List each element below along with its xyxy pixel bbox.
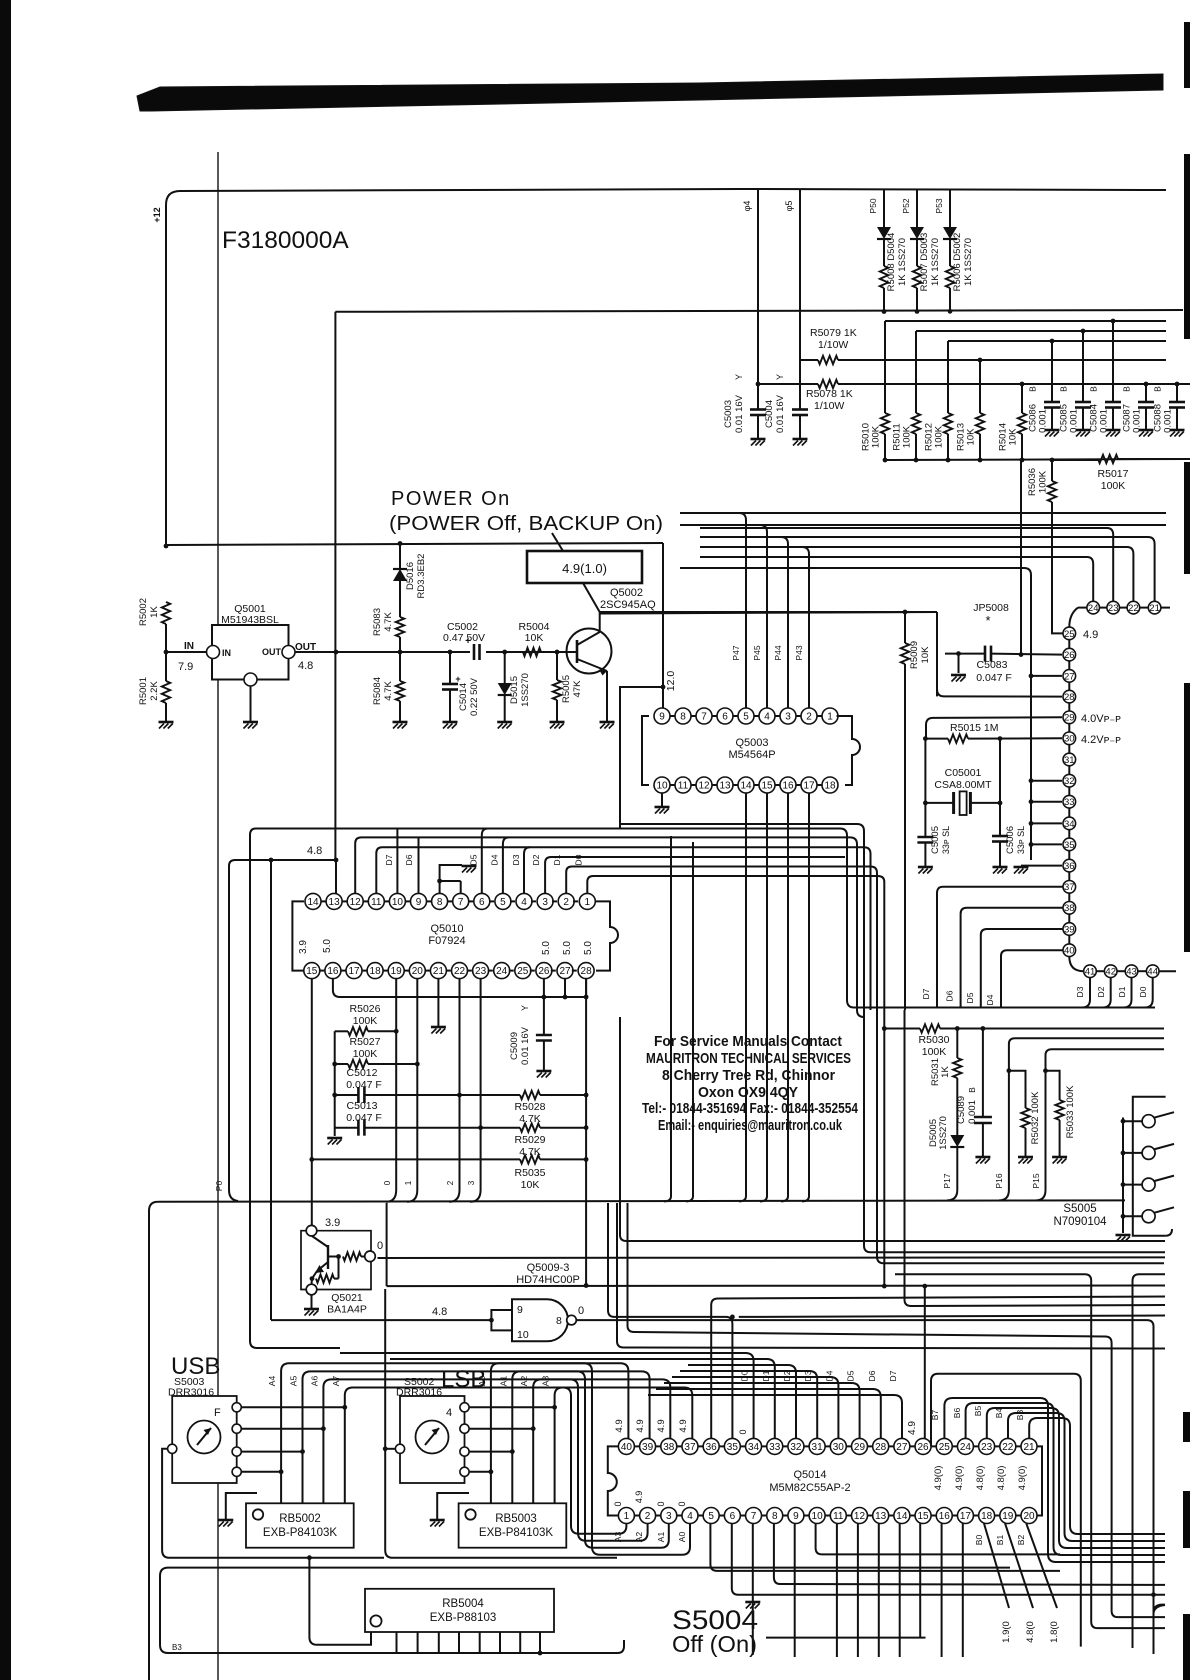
wire pin15 vertical down xyxy=(311,979,313,1231)
svg-text:D5: D5 xyxy=(965,992,975,1003)
svg-text:5.0: 5.0 xyxy=(562,941,573,955)
wire bus y=537 left end corner down xyxy=(700,537,788,583)
junction RB5004 pin8 bus xyxy=(538,1651,543,1656)
connector pin 23 xyxy=(1107,601,1120,614)
svg-text:A0: A0 xyxy=(677,1532,687,1543)
IC Q5010 pin 3 xyxy=(537,893,553,909)
IC Q5003 pin 7 xyxy=(696,708,712,724)
connector pin 40 xyxy=(1063,944,1076,957)
svg-text:D4: D4 xyxy=(490,854,500,865)
IC Q5014 pin 19 xyxy=(1000,1508,1016,1524)
svg-text:R5001: R5001 xyxy=(138,677,149,705)
IC Q5014 pin 27 xyxy=(894,1438,910,1454)
wire pin13 drop xyxy=(335,860,337,894)
ground below C5003 xyxy=(751,438,766,441)
wire Q5002 collector to 12.0 node xyxy=(600,612,937,614)
svg-text:100K: 100K xyxy=(902,425,913,448)
wire Q5003 pin14 down xyxy=(745,793,747,1196)
svg-text:33: 33 xyxy=(769,1442,781,1453)
svg-text:0.47 50V: 0.47 50V xyxy=(443,632,485,644)
svg-text:D3: D3 xyxy=(1075,986,1085,997)
junction R5030/R5031 xyxy=(955,1026,960,1031)
svg-text:23: 23 xyxy=(475,966,487,977)
wire Q5010 pin1 riser to bus y=876 xyxy=(587,876,884,1286)
wire 12.0 node to Q5003 pin 9 xyxy=(662,687,664,710)
svg-text:B3: B3 xyxy=(172,1643,182,1652)
ground at RB5003 xyxy=(430,1519,445,1522)
svg-text:7: 7 xyxy=(458,897,464,908)
NAND output bubble xyxy=(567,1315,577,1325)
wire Q5010 pin5 riser to bus xyxy=(503,837,509,893)
svg-text:27: 27 xyxy=(1064,671,1075,682)
switch S5002 dial xyxy=(416,1421,449,1454)
resistor R5036 100K xyxy=(1051,460,1053,481)
svg-text:For Service Manuals Contact: For Service Manuals Contact xyxy=(654,1033,842,1050)
diode D5016 RD3.3EB2 zener xyxy=(399,544,401,570)
IC Q5010 pin 11 xyxy=(368,893,384,909)
svg-text:4: 4 xyxy=(687,1511,693,1522)
svg-text:44: 44 xyxy=(1147,967,1158,978)
IC Q5010 pin 6 xyxy=(474,893,490,909)
wire LSB common west xyxy=(385,1448,395,1450)
wire phi4 vertical xyxy=(757,190,759,409)
IC Q5014 pin 7 xyxy=(746,1508,762,1524)
svg-text:100K: 100K xyxy=(353,1048,378,1060)
wire pin22 vertical xyxy=(459,979,461,1190)
svg-text:1: 1 xyxy=(404,1180,413,1185)
svg-text:4: 4 xyxy=(764,712,770,723)
svg-text:33ᴘ SL: 33ᴘ SL xyxy=(941,826,951,854)
wire A0 from LSB to Q5014 xyxy=(491,1363,690,1555)
svg-text:3: 3 xyxy=(467,1180,476,1185)
junction R5027 left xyxy=(332,1062,337,1067)
junction C5083 left xyxy=(956,651,961,656)
wire A5 from USB to Q5014 xyxy=(303,1371,650,1503)
svg-text:R5079 1K: R5079 1K xyxy=(810,327,857,339)
wire P16 riser and hook xyxy=(999,1038,1164,1200)
svg-text:C5083: C5083 xyxy=(977,659,1008,671)
IC Q5014 pin 39 xyxy=(640,1438,656,1454)
svg-text:29: 29 xyxy=(1064,713,1075,724)
svg-text:R5083: R5083 xyxy=(372,608,383,636)
svg-text:1.9(0: 1.9(0 xyxy=(1001,1621,1012,1643)
IC Q5014 pin 2 xyxy=(640,1508,656,1524)
IC Q5014 pin 9 xyxy=(788,1508,804,1524)
svg-text:16: 16 xyxy=(782,781,794,792)
wire R5084 to ground xyxy=(399,701,401,722)
IC Q5003 pin 8 xyxy=(675,708,691,724)
svg-text:Y: Y xyxy=(734,374,744,380)
svg-text:1/10W: 1/10W xyxy=(814,400,844,412)
svg-text:17: 17 xyxy=(803,781,815,792)
svg-text:0: 0 xyxy=(656,1501,666,1506)
svg-text:+12: +12 xyxy=(152,207,162,222)
svg-text:35: 35 xyxy=(727,1442,739,1453)
svg-text:4.8(0): 4.8(0) xyxy=(996,1466,1007,1491)
wire P15 riser and hook xyxy=(1036,1049,1164,1200)
svg-text:4.2Vᴘ₋ᴘ: 4.2Vᴘ₋ᴘ xyxy=(1081,734,1121,746)
svg-text:27: 27 xyxy=(559,966,571,977)
svg-text:13: 13 xyxy=(719,781,731,792)
switch S5005 common bracket xyxy=(1122,1118,1124,1234)
svg-text:3: 3 xyxy=(542,897,548,908)
svg-text:Off (On): Off (On) xyxy=(672,1631,757,1657)
wire Q5021 bottom to ground xyxy=(311,1295,313,1308)
wire USB contact1 to A7 xyxy=(241,1406,344,1408)
wire pin35 feed xyxy=(608,1203,1165,1438)
junction OUT rail at x=336 xyxy=(334,650,339,655)
svg-text:0: 0 xyxy=(578,1305,584,1317)
svg-text:18: 18 xyxy=(370,966,382,977)
svg-text:10K: 10K xyxy=(521,1179,540,1191)
svg-text:5.0: 5.0 xyxy=(541,941,552,955)
ground below C5083 wire xyxy=(951,674,966,677)
junction D5004 column on 311.8 xyxy=(882,309,887,314)
ground at Q5010 pins 7-8 xyxy=(462,865,477,868)
svg-text:3.9: 3.9 xyxy=(298,940,309,954)
switch S5002 common contact xyxy=(395,1444,404,1453)
svg-text:P17: P17 xyxy=(942,1173,952,1188)
svg-text:C5009: C5009 xyxy=(509,1032,520,1060)
wire pin25 riser corner xyxy=(1069,608,1078,627)
svg-text:10K: 10K xyxy=(525,632,544,644)
wire D5 to Q5014 xyxy=(664,1383,860,1438)
svg-text:B: B xyxy=(1089,386,1099,392)
svg-text:40: 40 xyxy=(1064,946,1075,957)
wire LSB contact3 to A1 xyxy=(469,1451,512,1453)
wire vertical x=271 down to NAND supply xyxy=(270,860,272,1320)
ground below C5009 xyxy=(536,1070,551,1073)
IC Q5010 pin 20 xyxy=(409,963,425,979)
wire USB contact3 to A5 xyxy=(241,1451,302,1453)
svg-text:9: 9 xyxy=(416,897,422,908)
IC Q5014 pin 15 xyxy=(915,1508,931,1524)
connector pin 30 xyxy=(1063,732,1076,745)
wire bus y=525 left end corner down xyxy=(680,525,767,573)
Q5021 output pin circle xyxy=(365,1251,376,1262)
svg-text:C5089: C5089 xyxy=(956,1096,967,1124)
IC Q5010 pin 16 xyxy=(325,963,341,979)
svg-text:R5009: R5009 xyxy=(909,641,920,669)
resistor R5001 xyxy=(162,681,170,703)
wire LSB contact4 to A0 xyxy=(469,1471,491,1473)
wire pin7 drop to S5004 ground xyxy=(752,1524,754,1656)
resistor R5035 10K xyxy=(520,1155,540,1163)
wire R5035 rail y=1159 xyxy=(312,1158,520,1160)
resonator C05001 element xyxy=(925,802,953,804)
ground below R5033 xyxy=(1052,1156,1067,1159)
junction LSB common x=385 xyxy=(383,1446,388,1451)
wire vertical x=663 from top wire to 12.0 junction xyxy=(662,543,664,687)
wire Q5010 pin21 to ground xyxy=(437,979,439,1026)
resistor R5033 100K xyxy=(1046,1071,1060,1100)
svg-text:100K: 100K xyxy=(922,1046,947,1058)
wire bus y=1274.3 east segment xyxy=(1133,1274,1166,1648)
IC Q5003 pin 2 xyxy=(801,708,817,724)
svg-text:33: 33 xyxy=(1064,797,1075,808)
svg-text:4.9: 4.9 xyxy=(907,1421,918,1435)
resistor R5007 1K xyxy=(913,266,921,288)
svg-text:C5004: C5004 xyxy=(764,400,775,428)
svg-text:N7090104: N7090104 xyxy=(1053,1216,1107,1228)
svg-text:R5017: R5017 xyxy=(1098,468,1129,480)
wire D1 to Q5014 xyxy=(390,1359,775,1438)
wire pin10 drop xyxy=(816,1524,1060,1555)
wire A4 from USB to Q5014 xyxy=(281,1363,628,1503)
IC Q5014 pin 18 xyxy=(979,1508,995,1524)
IC Q5014 pin 40 xyxy=(618,1438,634,1454)
svg-text:P50: P50 xyxy=(868,198,878,213)
svg-text:36: 36 xyxy=(706,1442,718,1453)
wire 12.0 node stub left and down xyxy=(620,687,663,824)
wire RB5002 ground stub xyxy=(226,1493,257,1519)
svg-text:C5006: C5006 xyxy=(1005,826,1016,854)
svg-text:18: 18 xyxy=(981,1511,993,1522)
IC RB5003 EXB-P84103K body xyxy=(459,1503,567,1547)
IC Q5010 pin 8 xyxy=(432,893,448,909)
svg-text:D7: D7 xyxy=(384,854,394,865)
IC Q5014 pin 8 xyxy=(767,1508,783,1524)
diagonal from pin18 xyxy=(984,1524,1009,1609)
wire LSB contact1 to A3 xyxy=(469,1406,554,1408)
svg-text:R5030: R5030 xyxy=(919,1034,950,1046)
wire horizontal y=544 from +12 rail to Q5002 collector drop xyxy=(166,543,663,545)
junction rail y=460 xyxy=(1050,458,1055,463)
svg-text:R5032 100K: R5032 100K xyxy=(1030,1091,1041,1144)
connector pin 38 xyxy=(1063,902,1076,915)
svg-text:F: F xyxy=(214,1407,221,1419)
svg-text:5: 5 xyxy=(743,712,749,723)
resistor R5015 1M xyxy=(925,738,948,740)
wire pin13 drop xyxy=(878,1524,880,1658)
svg-text:4.9(1.0): 4.9(1.0) xyxy=(562,561,607,576)
junction rail y=460 xyxy=(883,458,888,463)
IC Q5003 pin 1 xyxy=(822,708,838,724)
svg-text:R5015 1M: R5015 1M xyxy=(950,722,998,734)
wire pin34 west xyxy=(1031,822,1062,824)
svg-text:D6: D6 xyxy=(404,854,414,865)
svg-text:28: 28 xyxy=(581,966,593,977)
switch S5003 dial xyxy=(188,1421,221,1454)
capacitor C5088 0.001 B xyxy=(1176,385,1178,402)
wire R5083 to rail xyxy=(399,637,401,652)
right edge black mark 7 xyxy=(1183,1614,1190,1680)
wire vertical x=386.6 from bus to NAND area xyxy=(386,1203,388,1286)
capacitor C5003 0.01 16V xyxy=(750,408,766,411)
svg-text:4.9: 4.9 xyxy=(634,1491,644,1504)
svg-text:21: 21 xyxy=(1149,603,1160,614)
wire bus y=1263.2 from bundle x=877 xyxy=(877,1017,1164,1263)
svg-text:24: 24 xyxy=(496,966,508,977)
wire OUT rail y=652 xyxy=(295,651,577,653)
wire box line 4 xyxy=(376,847,870,1010)
IC Q5014 pin 14 xyxy=(894,1508,910,1524)
svg-text:19: 19 xyxy=(1002,1511,1014,1522)
wire bus y=525 xyxy=(680,524,1166,526)
wire arc branch exit y=1604.6 xyxy=(1154,1605,1166,1613)
svg-text:17: 17 xyxy=(960,1511,972,1522)
IC Q5014 body bottom edge xyxy=(620,1515,1036,1517)
wire A1 from LSB to Q5014 xyxy=(512,1371,669,1547)
svg-text:Q5003: Q5003 xyxy=(735,737,768,749)
IC Q5010 pin 12 xyxy=(347,893,363,909)
wire bundle hook x=767 xyxy=(760,1196,767,1201)
IC Q5014 pin 11 xyxy=(830,1508,846,1524)
wire pin38 west and hook xyxy=(961,908,1063,1008)
Q5021 bottom pin circle xyxy=(306,1284,317,1295)
svg-text:35: 35 xyxy=(1064,840,1075,851)
ground below C5087 xyxy=(1139,429,1154,432)
svg-text:32: 32 xyxy=(1064,776,1075,787)
junction bus F at C5087 xyxy=(1144,382,1149,387)
svg-text:0.047 F: 0.047 F xyxy=(346,1112,382,1124)
svg-text:27: 27 xyxy=(896,1442,908,1453)
svg-text:2: 2 xyxy=(806,712,812,723)
junction resonator right xyxy=(998,801,1003,806)
svg-text:6: 6 xyxy=(479,897,485,908)
svg-text:1SS270: 1SS270 xyxy=(938,1116,949,1150)
svg-text:10K: 10K xyxy=(920,646,931,664)
junction R5028 pin28 vertical xyxy=(584,1093,589,1098)
IC Q5010 pin 18 xyxy=(367,963,383,979)
IC Q5014 body top edge xyxy=(620,1445,1036,1447)
svg-text:4.9: 4.9 xyxy=(614,1419,625,1432)
ground below R5032 xyxy=(1018,1156,1033,1159)
resistor R5026 100K xyxy=(335,1030,348,1032)
svg-text:15: 15 xyxy=(306,966,318,977)
IC Q5003 pin 12 xyxy=(696,777,712,793)
svg-text:10: 10 xyxy=(656,781,668,792)
svg-text:32: 32 xyxy=(790,1442,802,1453)
svg-text:D2: D2 xyxy=(531,854,541,865)
ground below Q5003 pin10 xyxy=(655,806,670,809)
svg-text:4.8: 4.8 xyxy=(307,845,322,857)
svg-text:9: 9 xyxy=(517,1304,523,1316)
IC Q5010 pin 19 xyxy=(388,963,404,979)
top black separator bar xyxy=(137,74,1163,111)
wire USB common west down xyxy=(162,1449,384,1558)
wire bundle hook x=693 xyxy=(686,1196,693,1201)
resistor R5011 100K xyxy=(915,331,917,413)
wire bundle hook x=809 xyxy=(802,1196,809,1201)
wire pin14 drop xyxy=(899,1524,901,1658)
svg-text:2SC945AQ: 2SC945AQ xyxy=(600,599,656,611)
resistor R5084 xyxy=(396,681,404,701)
wire pin29 west corner xyxy=(926,717,1062,738)
svg-text:4.8: 4.8 xyxy=(432,1306,447,1318)
svg-text:36: 36 xyxy=(1064,861,1075,872)
junction C5088 bus F xyxy=(1175,382,1180,387)
IC Q5010 pin 9 xyxy=(411,893,427,909)
IC Q5010 pin 5 xyxy=(495,893,511,909)
svg-text:20: 20 xyxy=(1023,1511,1035,1522)
ground below C5084 xyxy=(1106,429,1121,432)
diagonal from pin20 xyxy=(1026,1524,1057,1609)
wire Q5003 pin3 up P44 xyxy=(787,583,789,708)
svg-text:R5084: R5084 xyxy=(372,677,383,705)
IC Q5010 pin 24 xyxy=(494,963,510,979)
svg-text:8: 8 xyxy=(437,897,443,908)
svg-text:B1: B1 xyxy=(995,1535,1005,1546)
wire bus D y=341 xyxy=(948,340,1166,342)
capacitor C5084 0.001 B xyxy=(1112,321,1114,402)
resistor R5004 10K xyxy=(523,648,541,656)
svg-text:1/10W: 1/10W xyxy=(818,339,848,351)
svg-text:8: 8 xyxy=(556,1315,562,1327)
svg-text:R5026: R5026 xyxy=(350,1003,381,1015)
capacitor C5086 0.001 B xyxy=(1051,341,1053,402)
wire vertical x=385 NAND to USB bus xyxy=(385,1286,617,1558)
junction R5002/R5001/Q5001 IN xyxy=(164,650,169,655)
svg-text:4.8(0: 4.8(0 xyxy=(1025,1621,1036,1643)
wire pin33 west xyxy=(1031,801,1062,803)
wire pins32-35 feed vertical x=1031 xyxy=(1030,847,1032,860)
wire bus y=513 left end corner down xyxy=(680,513,746,563)
wire bundle hook x=746 xyxy=(739,1196,746,1201)
svg-text:D1: D1 xyxy=(552,854,562,865)
wire bundle hooks into bus x=671 xyxy=(664,1196,671,1201)
svg-text:5.0: 5.0 xyxy=(583,941,594,955)
svg-text:A0: A0 xyxy=(477,1376,487,1387)
svg-text:D5: D5 xyxy=(846,1370,856,1381)
ground below R5001 xyxy=(159,721,174,724)
svg-text:25: 25 xyxy=(939,1442,951,1453)
IC Q5003 pin 13 xyxy=(717,777,733,793)
svg-text:F3180000A: F3180000A xyxy=(222,227,349,254)
right edge black mark 5 xyxy=(1183,1412,1190,1442)
IC Q5003 pin 16 xyxy=(780,777,796,793)
capacitor C5006 33p SL xyxy=(992,835,1008,838)
wire outer wrap rect xyxy=(931,1374,1081,1647)
svg-text:C5012: C5012 xyxy=(347,1067,378,1079)
svg-text:D4: D4 xyxy=(824,1370,834,1381)
svg-text:S5005: S5005 xyxy=(1063,1203,1096,1215)
junction pin6 line x=1153.5 xyxy=(1151,1592,1156,1597)
switch S5005 contact 1 xyxy=(1121,1119,1126,1124)
wire pin42 drop hook xyxy=(1103,978,1111,1008)
wire D2 to Q5014 xyxy=(688,1365,796,1438)
wire pin27 to rail997 xyxy=(564,979,566,997)
wire pin19 vertical xyxy=(395,979,397,1190)
svg-text:D1: D1 xyxy=(1117,986,1127,997)
connector pin 43 xyxy=(1125,965,1138,978)
resistor R5010 100K xyxy=(884,321,886,413)
IC Q5014 pin 12 xyxy=(851,1508,867,1524)
junction rail y=460 xyxy=(914,458,919,463)
junction R5078 at phi4 xyxy=(756,382,761,387)
IC Q5014 pin 20 xyxy=(1021,1508,1037,1524)
wire bus C y=331 xyxy=(916,330,1166,332)
svg-text:F07924: F07924 xyxy=(428,935,465,947)
NAND gate Q5009 body xyxy=(512,1299,568,1341)
voltage box 4.9(1.0) xyxy=(527,551,642,583)
connector pin 37 xyxy=(1063,881,1076,894)
wire P17 hook xyxy=(947,1190,957,1200)
wire pin28 to rail997 xyxy=(585,979,587,997)
svg-text:1K: 1K xyxy=(149,606,160,618)
svg-text:100K: 100K xyxy=(871,425,882,448)
junction OUT rail at C5014 xyxy=(448,650,453,655)
IC Q5003 pin 10 xyxy=(654,777,670,793)
wire Q5003 pin5 up P47 xyxy=(745,563,747,708)
IC Q5010 pin 14 xyxy=(305,893,321,909)
svg-text:Oxon OX9 4QY: Oxon OX9 4QY xyxy=(698,1084,798,1101)
ground below C5085 xyxy=(1076,429,1091,432)
IC Q5014 pin 23 xyxy=(979,1438,995,1454)
svg-text:P52: P52 xyxy=(901,198,911,213)
wire D5002 column xyxy=(949,190,951,227)
svg-text:D2: D2 xyxy=(1096,986,1106,997)
